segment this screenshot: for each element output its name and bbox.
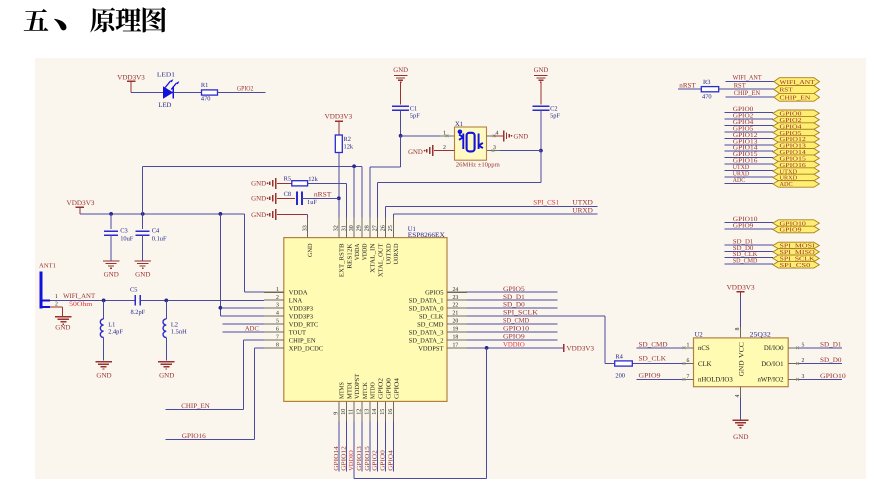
svg-text:GPIO4: GPIO4: [393, 377, 400, 399]
svg-text:GPIO10: GPIO10: [503, 326, 530, 333]
svg-text:VCC: VCC: [739, 341, 746, 358]
svg-text:ADC: ADC: [245, 325, 260, 332]
svg-text:GPIO9: GPIO9: [503, 334, 526, 341]
svg-text:XTAL_OUT: XTAL_OUT: [377, 243, 384, 277]
svg-text:ESP8266EX: ESP8266EX: [408, 232, 445, 239]
svg-text:LED: LED: [158, 102, 171, 109]
svg-text:10uF: 10uF: [120, 236, 134, 243]
svg-text:SD_DATA_1: SD_DATA_1: [409, 298, 444, 305]
svg-text:VDDA: VDDA: [354, 243, 361, 260]
svg-text:8.2pF: 8.2pF: [131, 309, 146, 316]
svg-text:nWP/IO2: nWP/IO2: [757, 377, 784, 384]
svg-text:GPIO9: GPIO9: [780, 228, 802, 234]
svg-text:26MHz ±10ppm: 26MHz ±10ppm: [456, 161, 500, 168]
svg-text:1: 1: [55, 294, 58, 300]
svg-text:CLK: CLK: [698, 361, 712, 368]
svg-text:GND: GND: [159, 372, 174, 379]
svg-text:GND: GND: [135, 272, 150, 279]
svg-text:LNA: LNA: [289, 298, 303, 305]
svg-text:nRST: nRST: [679, 83, 696, 90]
svg-text:3: 3: [276, 303, 279, 309]
svg-text:1: 1: [276, 287, 279, 293]
svg-text:GPIO12: GPIO12: [341, 446, 348, 471]
svg-text:15: 15: [380, 409, 386, 415]
svg-text:SD_CMD: SD_CMD: [417, 322, 444, 329]
svg-text:nCS: nCS: [698, 345, 710, 352]
svg-text:MTMS: MTMS: [339, 382, 346, 399]
svg-text:EXT_RSTB: EXT_RSTB: [339, 244, 346, 278]
svg-text:VDDIO: VDDIO: [503, 341, 525, 348]
svg-text:470: 470: [201, 96, 211, 103]
svg-text:MTDI: MTDI: [347, 382, 354, 399]
svg-text:VDD3V3: VDD3V3: [567, 345, 595, 352]
svg-text:VDD3V3: VDD3V3: [325, 113, 353, 120]
svg-text:3: 3: [493, 145, 496, 151]
svg-text:GPIO16: GPIO16: [182, 433, 207, 440]
svg-text:7: 7: [276, 335, 279, 341]
svg-text:URXD: URXD: [572, 207, 593, 214]
svg-text:R4: R4: [615, 353, 623, 360]
svg-text:GPIO13: GPIO13: [356, 446, 363, 471]
svg-text:SPI_CS1: SPI_CS1: [533, 200, 559, 207]
svg-text:R3: R3: [703, 79, 710, 86]
svg-text:nHOLD/IO3: nHOLD/IO3: [698, 377, 733, 384]
svg-text:24: 24: [453, 287, 459, 293]
svg-text:12: 12: [357, 409, 363, 415]
svg-text:GPIO2: GPIO2: [237, 86, 254, 93]
svg-text:1: 1: [687, 343, 690, 349]
svg-text:16: 16: [388, 409, 394, 415]
svg-text:SD_CLK: SD_CLK: [639, 355, 667, 362]
svg-text:GND: GND: [393, 67, 408, 74]
svg-text:4: 4: [735, 395, 741, 398]
svg-text:10: 10: [341, 409, 347, 415]
svg-text:WIFI_ANT: WIFI_ANT: [63, 293, 95, 300]
svg-text:VDD3V3: VDD3V3: [67, 200, 96, 207]
svg-text:U0TXD: U0TXD: [385, 243, 392, 264]
svg-text:C1: C1: [410, 106, 417, 113]
svg-text:SD_DATA_2: SD_DATA_2: [409, 337, 444, 344]
svg-text:VDD3V3: VDD3V3: [117, 74, 145, 81]
svg-text:GPIO14: GPIO14: [333, 446, 340, 471]
svg-text:VDD3P3: VDD3P3: [289, 314, 313, 321]
svg-text:MTCK: MTCK: [362, 382, 369, 399]
svg-text:19: 19: [453, 327, 459, 333]
svg-text:GND: GND: [307, 243, 314, 257]
svg-text:U2: U2: [695, 332, 703, 339]
svg-text:R1: R1: [201, 82, 208, 89]
svg-text:SD_CLK: SD_CLK: [419, 314, 444, 321]
svg-text:13: 13: [364, 409, 370, 415]
svg-text:14: 14: [372, 409, 378, 415]
svg-text:CHIP_EN: CHIP_EN: [734, 90, 761, 97]
svg-text:GPIO9: GPIO9: [639, 373, 662, 380]
svg-text:WIFI_ANT: WIFI_ANT: [733, 75, 762, 82]
svg-text:28: 28: [365, 225, 371, 231]
svg-text:MTDO: MTDO: [370, 382, 377, 399]
svg-text:GND: GND: [251, 196, 266, 203]
svg-text:8: 8: [276, 342, 279, 348]
svg-text:XTAL_IN: XTAL_IN: [370, 243, 377, 273]
svg-text:C5: C5: [130, 286, 137, 293]
svg-text:25Q32: 25Q32: [750, 332, 771, 339]
svg-text:GND: GND: [55, 324, 70, 331]
svg-text:27: 27: [372, 225, 378, 231]
svg-text:5pF: 5pF: [550, 113, 560, 120]
svg-text:5pF: 5pF: [410, 113, 420, 120]
svg-text:25: 25: [388, 225, 394, 231]
svg-text:11: 11: [349, 409, 355, 415]
svg-text:20: 20: [453, 319, 459, 325]
svg-text:GND: GND: [514, 133, 529, 140]
svg-text:30: 30: [349, 225, 355, 231]
svg-text:12k: 12k: [344, 144, 354, 151]
svg-text:8: 8: [735, 328, 741, 331]
svg-text:SPI_CS0: SPI_CS0: [780, 263, 811, 269]
svg-text:RST: RST: [780, 88, 794, 94]
svg-text:C3: C3: [120, 227, 127, 234]
svg-text:UTXD: UTXD: [572, 200, 593, 207]
svg-text:VDDPST: VDDPST: [354, 374, 361, 399]
svg-text:VDD3V3: VDD3V3: [727, 285, 756, 292]
svg-text:C8: C8: [284, 191, 291, 198]
svg-text:LED1: LED1: [157, 72, 175, 79]
svg-text:18: 18: [453, 335, 459, 341]
svg-text:GND: GND: [96, 372, 111, 379]
svg-text:GPIO5: GPIO5: [503, 286, 526, 293]
svg-text:GND: GND: [251, 181, 266, 188]
svg-text:GPIO2: GPIO2: [378, 378, 385, 399]
svg-text:GPIO15: GPIO15: [364, 446, 371, 471]
svg-text:26: 26: [380, 225, 386, 231]
svg-text:29: 29: [357, 225, 363, 231]
svg-text:nRST: nRST: [314, 191, 332, 198]
svg-text:32: 32: [334, 225, 340, 231]
svg-text:2: 2: [55, 302, 58, 308]
svg-text:5: 5: [276, 319, 279, 325]
svg-text:ADC: ADC: [780, 182, 793, 188]
svg-text:470: 470: [702, 93, 712, 100]
svg-text:VDD_RTC: VDD_RTC: [289, 322, 319, 329]
svg-text:GPIO2: GPIO2: [372, 450, 379, 471]
svg-text:VDD3P3: VDD3P3: [289, 306, 313, 313]
svg-text:12k: 12k: [308, 176, 318, 183]
svg-text:XPD_DCDC: XPD_DCDC: [289, 345, 323, 352]
svg-text:X1: X1: [455, 121, 463, 128]
svg-text:GND: GND: [739, 360, 746, 376]
svg-text:GND: GND: [408, 149, 423, 156]
svg-text:4: 4: [276, 311, 279, 317]
svg-text:VDDIO: VDDIO: [348, 450, 355, 471]
svg-text:SPI_SCLK: SPI_SCLK: [503, 310, 538, 317]
svg-text:R5: R5: [284, 175, 291, 182]
svg-text:GPIO9: GPIO9: [733, 222, 754, 229]
svg-text:GND: GND: [104, 272, 119, 279]
svg-text:1.5nH: 1.5nH: [171, 328, 187, 335]
svg-text:GND: GND: [733, 434, 748, 441]
svg-text:TOUT: TOUT: [289, 329, 306, 336]
svg-text:SD_DATA_0: SD_DATA_0: [409, 306, 444, 313]
svg-text:U0RXD: U0RXD: [393, 243, 400, 264]
svg-text:ADC: ADC: [733, 177, 745, 184]
svg-text:SD_CMD: SD_CMD: [503, 318, 529, 325]
svg-text:2.4pF: 2.4pF: [108, 328, 123, 335]
svg-text:GPIO10: GPIO10: [820, 373, 847, 380]
svg-text:SD_D1: SD_D1: [503, 294, 525, 301]
svg-text:SD_CMD: SD_CMD: [733, 258, 758, 265]
svg-text:DI/IO0: DI/IO0: [764, 345, 784, 352]
svg-text:GND: GND: [251, 212, 266, 219]
svg-text:SD_CMD: SD_CMD: [639, 341, 668, 348]
svg-text:31: 31: [341, 225, 347, 231]
svg-text:17: 17: [453, 342, 459, 348]
svg-text:0.1uF: 0.1uF: [152, 236, 167, 243]
svg-text:GPIO0: GPIO0: [380, 450, 387, 471]
svg-text:GND: GND: [534, 67, 549, 74]
svg-text:C2: C2: [550, 106, 557, 113]
svg-text:1: 1: [443, 130, 446, 136]
svg-text:200: 200: [615, 373, 625, 380]
svg-text:VDDD: VDDD: [362, 243, 369, 260]
svg-text:VDDPST: VDDPST: [418, 345, 443, 352]
svg-text:CHIP_EN: CHIP_EN: [780, 96, 812, 102]
svg-text:9: 9: [333, 412, 339, 415]
svg-text:WIFI_ANT: WIFI_ANT: [780, 80, 816, 86]
svg-text:SD_D0: SD_D0: [503, 302, 526, 309]
svg-text:6: 6: [687, 358, 690, 364]
svg-text:SD_D0: SD_D0: [820, 357, 842, 364]
svg-text:GPIO4: GPIO4: [387, 450, 394, 471]
svg-text:GPIO0: GPIO0: [385, 378, 392, 399]
svg-text:SD_D1: SD_D1: [820, 341, 842, 348]
svg-text:22: 22: [453, 303, 459, 309]
svg-text:50Ohm: 50Ohm: [69, 301, 93, 308]
svg-text:2: 2: [276, 295, 279, 301]
svg-text:VDDA: VDDA: [289, 290, 308, 297]
svg-text:23: 23: [453, 295, 459, 301]
svg-text:1uF: 1uF: [307, 199, 317, 206]
svg-text:21: 21: [453, 311, 459, 317]
svg-text:DO/IO1: DO/IO1: [761, 361, 783, 368]
svg-text:6: 6: [276, 327, 279, 333]
svg-text:GPIO5: GPIO5: [425, 290, 443, 297]
svg-text:RST: RST: [734, 82, 746, 89]
svg-text:RES12K: RES12K: [346, 243, 353, 269]
svg-text:SD_DATA_3: SD_DATA_3: [409, 329, 444, 336]
svg-text:33: 33: [302, 225, 308, 231]
svg-text:CHIP_EN: CHIP_EN: [289, 337, 316, 344]
svg-text:C4: C4: [152, 227, 160, 234]
svg-text:ANT1: ANT1: [39, 262, 56, 269]
svg-text:7: 7: [687, 374, 690, 380]
svg-text:R2: R2: [344, 136, 351, 143]
svg-text:CHIP_EN: CHIP_EN: [181, 403, 210, 410]
